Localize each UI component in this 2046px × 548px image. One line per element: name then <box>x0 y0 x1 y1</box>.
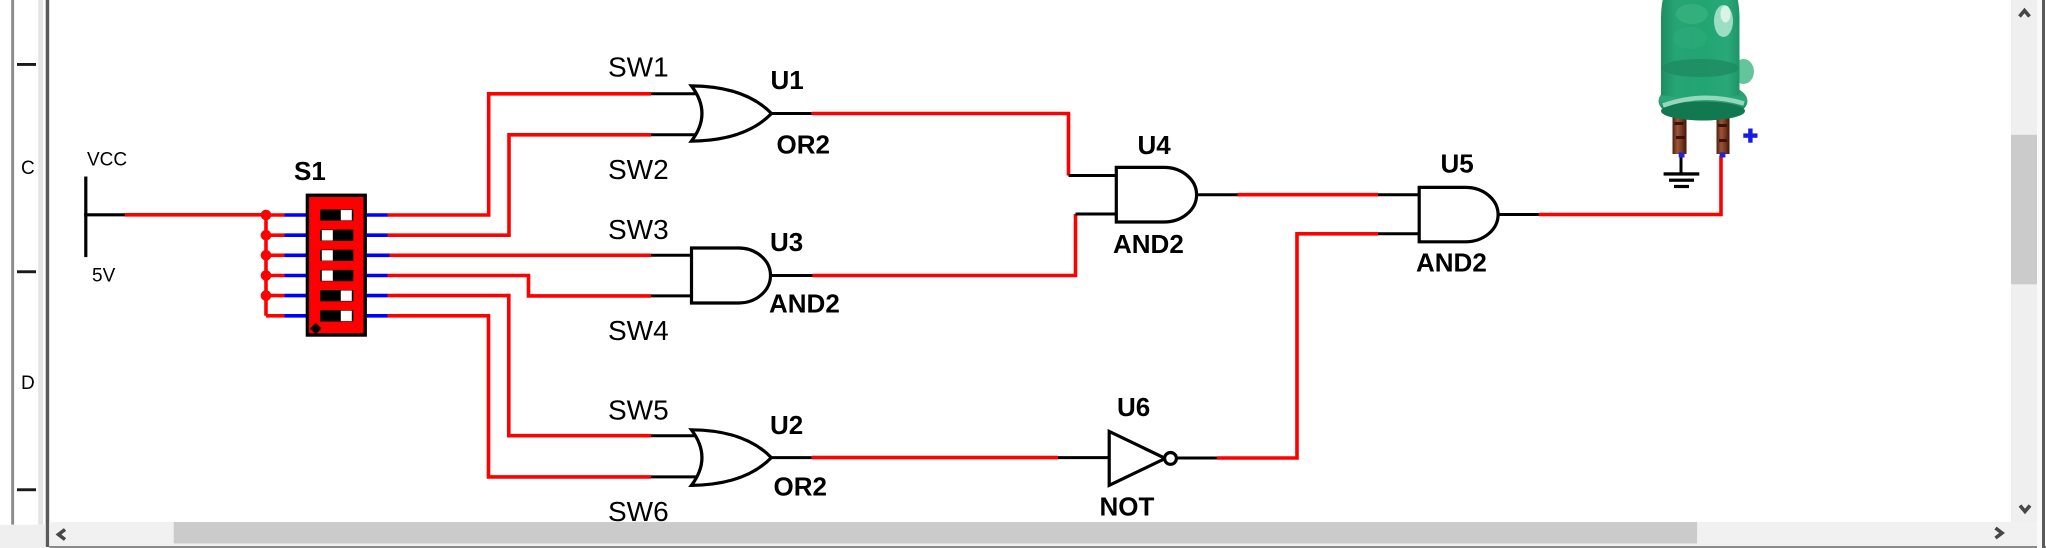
svg-text:OR2: OR2 <box>774 471 827 501</box>
svg-text:SW3: SW3 <box>608 214 669 245</box>
pin stub U4 output <box>1197 193 1238 196</box>
LED right pin end (blue) <box>1720 152 1726 157</box>
horizontal scrollbar right arrow <box>1996 528 2003 538</box>
ruler tick 1 <box>17 63 36 66</box>
svg-text:C: C <box>21 158 35 179</box>
wire LED cathode to ground <box>1680 155 1683 173</box>
wire SW4 net: S1 pin4 to U3 input B <box>387 276 651 296</box>
wire SW6 net: S1 pin6 to U2 input B <box>387 316 651 477</box>
window bottom border line <box>49 546 2046 548</box>
DIP switch S1 slider 6 white cap (right) <box>341 311 352 321</box>
pin stub U3 input B <box>651 294 693 297</box>
DIP switch S1 slider 4 white cap (left) <box>322 270 333 280</box>
DIP switch S1 slider 3 white cap (left) <box>322 250 333 260</box>
svg-text:S1: S1 <box>294 156 326 186</box>
pin stub U1 output <box>772 112 812 115</box>
ruler inner shade band <box>38 0 43 525</box>
pin stub U1 input B <box>651 133 699 136</box>
wire SW1 net: S1 pin1 to U1 input A <box>387 94 651 215</box>
pin stub U5 input A <box>1378 193 1420 196</box>
DIP switch S1 right pin 3 <box>367 254 390 258</box>
svg-text:SW5: SW5 <box>608 395 669 426</box>
vertical scrollbar track <box>2011 0 2037 522</box>
DIP switch S1 right pin 4 <box>367 274 388 278</box>
svg-text:5V: 5V <box>92 266 116 287</box>
DIP switch S1 left pin 4 <box>285 274 307 278</box>
not-gate U6 triangle <box>1109 431 1165 485</box>
svg-text:AND2: AND2 <box>1416 248 1487 278</box>
ground symbol bar 2 <box>1669 179 1694 182</box>
pin stub U2 output <box>771 456 812 459</box>
power symbol VCC black lead <box>84 213 125 216</box>
pin stub U5 input B <box>1378 232 1420 235</box>
DIP switch S1 right pin 1 <box>367 213 388 217</box>
junction dot row3 <box>261 250 272 261</box>
vertical scrollbar thumb <box>2011 135 2037 284</box>
DIP switch S1 left pin 2 <box>285 233 307 237</box>
LED dome highlight spot <box>1714 5 1733 37</box>
or-gate U1 body <box>691 86 771 141</box>
right gutter <box>2037 0 2042 548</box>
DIP switch S1 left pin 5 <box>285 294 307 298</box>
wire bus vertical <box>264 213 268 316</box>
ruler left border line <box>11 0 14 525</box>
junction dot row5 <box>261 290 272 301</box>
wire SW3 net: S1 pin3 to U3 input A <box>387 254 651 258</box>
wire U6 output to U5 input B <box>1217 234 1378 458</box>
pin stub U5 output <box>1498 213 1539 216</box>
svg-text:U2: U2 <box>770 410 803 440</box>
LED collar bump right <box>1733 59 1754 84</box>
LED flange bottom shadow <box>1661 102 1745 121</box>
ruler right dark border line <box>46 0 50 547</box>
DIP switch S1 left pin 6 <box>285 314 307 318</box>
power symbol VCC vertical bar <box>84 177 87 258</box>
LED polarity plus sign <box>1743 129 1757 143</box>
and-gate U4 body <box>1116 167 1196 222</box>
ground symbol bar 1 <box>1664 172 1700 175</box>
svg-text:U1: U1 <box>771 65 804 95</box>
LED dome light patch upper left <box>1676 4 1708 24</box>
horizontal scrollbar track <box>49 522 2042 546</box>
horizontal scrollbar thumb <box>174 522 1697 544</box>
svg-text:SW4: SW4 <box>608 315 669 346</box>
LED DS1 left leg (cathode) <box>1673 110 1687 154</box>
svg-text:VCC: VCC <box>87 150 127 171</box>
svg-text:U4: U4 <box>1138 130 1172 160</box>
wire SW2 net: S1 pin2 to U1 input B <box>387 135 651 235</box>
svg-text:SW1: SW1 <box>608 52 669 83</box>
pin stub U4 input B <box>1076 213 1118 216</box>
DIP switch S1 pin-1 diamond marker <box>310 323 321 334</box>
or-gate U2 body <box>691 430 771 486</box>
pin stub U2 input B <box>651 475 699 478</box>
DIP switch S1 body <box>307 195 365 335</box>
wire bus stub row1 <box>266 213 285 217</box>
LED flange rim highlight <box>1663 98 1744 106</box>
DIP switch S1 slider 1 white cap (right) <box>341 210 352 220</box>
LED flange <box>1659 82 1748 121</box>
DIP switch S1 slider 2 white cap (left) <box>322 230 333 240</box>
LED dome lower dark band <box>1662 59 1739 77</box>
DIP switch S1 slider 5 white cap (right) <box>341 291 352 301</box>
DIP switch S1 slider 1 <box>320 209 353 220</box>
pin stub U6 output <box>1176 457 1217 460</box>
ground symbol bar 3 <box>1674 185 1689 188</box>
wire U3 output to U4 input B <box>813 214 1076 276</box>
and-gate U5 body <box>1419 187 1498 241</box>
not-gate U6 inversion bubble <box>1165 453 1177 465</box>
pin stub U3 input A <box>651 254 693 257</box>
wire bus stub row6 <box>266 314 285 318</box>
LED leg notch marks <box>1675 122 1728 142</box>
wire bus stub row2 <box>266 233 285 237</box>
LED dome highlight bright core <box>1721 6 1731 23</box>
DIP switch S1 right pin 2 <box>367 233 388 237</box>
pin stub U6 input <box>1058 456 1110 459</box>
svg-text:OR2: OR2 <box>777 129 830 159</box>
DIP switch S1 slider 4 <box>320 270 353 281</box>
svg-text:SW2: SW2 <box>608 154 669 185</box>
wire U4 output to U5 input A <box>1238 193 1379 197</box>
DIP switch S1 right pin 5 <box>367 294 388 298</box>
wire bus stub row3 <box>266 254 285 258</box>
wire SW5 net: S1 pin5 to U2 input A <box>387 296 651 436</box>
pin stub U4 input A <box>1069 174 1118 177</box>
bottom-left corner panel <box>0 525 46 548</box>
svg-text:AND2: AND2 <box>769 288 840 318</box>
wire bus stub row4 <box>266 274 285 278</box>
LED left pin end (blue) <box>1679 152 1685 157</box>
DIP switch S1 slider 5 <box>320 290 353 301</box>
wire U5 output to LED anode <box>1539 156 1721 215</box>
DIP switch S1 left pin 1 <box>285 213 307 217</box>
DIP switch S1 slider 3 <box>320 250 353 261</box>
DIP switch S1 slider 6 <box>320 310 353 321</box>
LED DS1 right leg (anode) <box>1717 110 1730 154</box>
wire U2 output to U6 input <box>812 456 1058 460</box>
svg-text:AND2: AND2 <box>1113 229 1184 259</box>
LED dome mid light patch <box>1673 27 1707 49</box>
DIP switch S1 right pin 6 <box>367 314 388 318</box>
horizontal scrollbar left arrow <box>59 530 66 540</box>
pin stub U1 input A <box>651 92 699 95</box>
svg-text:D: D <box>21 373 35 394</box>
junction dot row4 <box>261 270 272 281</box>
ruler tick 3 <box>17 488 36 491</box>
pin stub U2 input A <box>651 434 699 437</box>
vertical scrollbar down arrow <box>2020 506 2030 512</box>
junction dot row1 <box>261 210 272 221</box>
svg-text:U5: U5 <box>1441 149 1474 179</box>
svg-text:U3: U3 <box>770 227 803 257</box>
wire VCC to bus <box>125 213 268 217</box>
window right border line <box>2042 0 2045 548</box>
and-gate U3 body <box>692 248 771 303</box>
DIP switch S1 slider 2 <box>320 230 353 241</box>
svg-text:U6: U6 <box>1117 392 1150 422</box>
LED dome body <box>1661 0 1740 98</box>
wire U1 output to U4 input A <box>812 114 1069 176</box>
vertical scrollbar up arrow <box>2020 11 2030 17</box>
svg-text:NOT: NOT <box>1100 492 1155 522</box>
junction dot row2 <box>261 230 272 241</box>
wire bus stub row5 <box>266 294 285 298</box>
ruler tick 2 <box>17 270 36 273</box>
DIP switch S1 left pin 3 <box>285 254 307 258</box>
pin stub U3 output <box>771 274 813 277</box>
